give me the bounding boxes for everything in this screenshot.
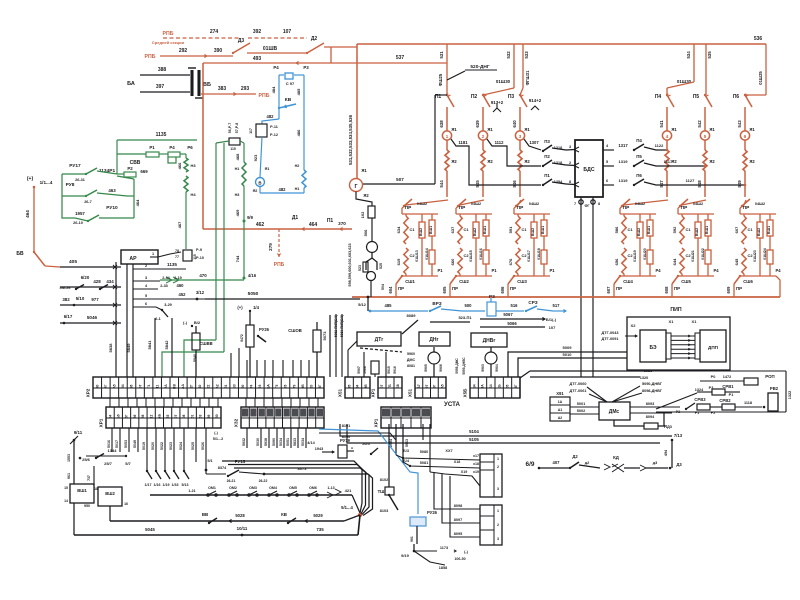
svg-text:А2: А2 xyxy=(215,384,219,388)
svg-text:П2: П2 xyxy=(471,94,478,100)
svg-text:8093: 8093 xyxy=(646,402,654,406)
svg-text:Х51: Х51 xyxy=(408,388,413,397)
block ДТг xyxy=(357,332,401,346)
svg-text:РУ8: РУ8 xyxy=(66,182,75,188)
svg-text:5: 5 xyxy=(704,134,707,140)
svg-text:Р-9: Р-9 xyxy=(196,248,202,252)
svg-text:5915: 5915 xyxy=(387,366,391,374)
wire 8100 xyxy=(319,433,396,440)
resistor Р1 СШ3 xyxy=(541,250,547,264)
winding Я2 П1 xyxy=(446,140,448,150)
svg-text:547: 547 xyxy=(659,180,664,188)
shunt ВШ2 01Ш17 xyxy=(533,214,535,222)
svg-text:П3: П3 xyxy=(508,94,515,100)
wire 493 horizontal xyxy=(203,62,331,64)
svg-text:Р-12: Р-12 xyxy=(270,133,278,137)
svg-text:5838: 5838 xyxy=(108,343,113,353)
block АР xyxy=(121,250,158,264)
terminal strip Х51b xyxy=(415,377,446,398)
svg-text:ДПП: ДПП xyxy=(708,345,718,350)
contactor ВБ xyxy=(190,70,193,96)
svg-text:15: 15 xyxy=(64,486,68,490)
svg-text:1Б: 1Б xyxy=(497,384,501,389)
svg-text:537: 537 xyxy=(396,55,405,61)
winding Я2 П4 xyxy=(666,140,668,150)
wire 1307 circle3 to П3 contact xyxy=(524,139,541,150)
svg-text:8103: 8103 xyxy=(380,509,388,513)
svg-text:5842: 5842 xyxy=(164,340,169,350)
svg-text:5002: 5002 xyxy=(577,409,585,413)
wires below ХР1 row4 with labels xyxy=(111,428,113,452)
wire 465 blue tap xyxy=(367,296,370,299)
svg-text:516: 516 xyxy=(511,303,519,308)
svg-text:9/11: 9/11 xyxy=(74,430,83,435)
wire 5104 xyxy=(340,424,672,436)
svg-text:8: 8 xyxy=(569,180,571,184)
svg-text:26-21: 26-21 xyxy=(227,479,236,483)
wire 640 vertical xyxy=(519,107,521,131)
svg-text:669: 669 xyxy=(140,169,148,174)
svg-text:607: 607 xyxy=(606,286,611,294)
svg-text:639: 639 xyxy=(475,120,480,128)
wire 545 vertical xyxy=(482,171,484,197)
wire 523-П1 xyxy=(430,321,470,323)
svg-text:51: 51 xyxy=(190,415,194,419)
wire 8089 xyxy=(402,320,418,334)
svg-text:5053: 5053 xyxy=(124,440,128,448)
contact П1 БДС xyxy=(543,179,552,185)
svg-text:ВШ1: ВШ1 xyxy=(705,226,709,234)
connector ticks БЭ-ДПП xyxy=(666,333,671,359)
svg-text:04Ш2: 04Ш2 xyxy=(693,202,703,206)
wire 392 107 dashed xyxy=(248,37,307,39)
svg-text:544: 544 xyxy=(439,180,444,188)
svg-text:Б/1(-): Б/1(-) xyxy=(546,317,557,322)
svg-text:РПБ: РПБ xyxy=(145,54,156,60)
motor armature circle 5 xyxy=(700,131,709,140)
wire 469 green xyxy=(243,186,245,221)
svg-text:04Ш2: 04Ш2 xyxy=(417,202,427,206)
svg-text:86: 86 xyxy=(133,415,137,419)
svg-text:Я2: Я2 xyxy=(524,159,530,164)
svg-text:Я1: Я1 xyxy=(709,127,715,132)
svg-text:5090: 5090 xyxy=(272,438,276,446)
svg-text:ОМ3: ОМ3 xyxy=(249,486,257,490)
svg-text:460: 460 xyxy=(177,283,185,288)
svg-text:П6: П6 xyxy=(636,173,642,178)
svg-text:3: 3 xyxy=(497,487,499,491)
svg-text:Х5Б: Х5Б xyxy=(463,388,468,398)
svg-text:КД: КД xyxy=(613,455,620,460)
svg-text:5026: 5026 xyxy=(201,442,205,450)
resistor 607 СШ6 xyxy=(742,216,746,244)
wire 5073 xyxy=(329,315,331,377)
svg-text:ВШ1: ВШ1 xyxy=(429,226,433,234)
svg-text:КВ: КВ xyxy=(285,97,292,103)
svg-text:3Г: 3Г xyxy=(318,385,322,389)
svg-text:ПР: ПР xyxy=(459,205,466,211)
svg-text:РВ2: РВ2 xyxy=(770,386,779,391)
wire Г down to stack xyxy=(356,192,372,207)
svg-text:9/9: 9/9 xyxy=(247,215,253,220)
svg-text:546: 546 xyxy=(512,180,517,188)
svg-text:07: 07 xyxy=(174,415,178,419)
svg-text:545: 545 xyxy=(475,180,480,188)
svg-text:х19: х19 xyxy=(473,470,479,474)
svg-text:ПР: ПР xyxy=(517,205,524,211)
wire 533 vertical xyxy=(522,44,524,88)
svg-text:Р6: Р6 xyxy=(187,145,193,150)
svg-text:26-31: 26-31 xyxy=(75,178,85,182)
svg-text:Р1: Р1 xyxy=(491,268,497,273)
svg-text:ОМ5: ОМ5 xyxy=(289,486,297,490)
resistor chain ПР СШ3 xyxy=(514,200,521,208)
svg-text:д3: д3 xyxy=(653,461,658,465)
svg-text:Я2: Я2 xyxy=(709,159,715,164)
svg-text:466: 466 xyxy=(177,162,182,169)
svg-text:463: 463 xyxy=(108,188,116,193)
svg-text:1318: 1318 xyxy=(554,161,562,165)
svg-text:638: 638 xyxy=(439,120,444,128)
svg-text:Я2: Я2 xyxy=(749,159,755,164)
svg-text:Я1: Я1 xyxy=(361,168,367,173)
svg-text:452: 452 xyxy=(179,292,187,297)
motor armature circle 2 xyxy=(478,131,487,140)
wire 605 drop xyxy=(450,276,456,284)
wires row4b to bottom xyxy=(410,424,430,472)
svg-text:В: В xyxy=(258,181,261,186)
wire 638 vertical xyxy=(446,107,448,131)
wire 464 vertical left xyxy=(33,187,35,252)
svg-text:Б8: Б8 xyxy=(396,384,400,388)
resistor Р1 СШ2 xyxy=(483,250,489,264)
svg-text:1: 1 xyxy=(497,509,499,513)
svg-text:1324: 1324 xyxy=(695,388,704,392)
wire 8073 xyxy=(264,473,368,475)
svg-text:С 97: С 97 xyxy=(286,81,295,86)
wires above ХР2 right part xyxy=(230,360,232,377)
svg-text:С1: С1 xyxy=(685,227,691,232)
relay РУ26 blue box xyxy=(410,517,426,526)
terminal strip ХР1a xyxy=(378,377,402,398)
resistor chain ПР СШ2 xyxy=(456,200,484,208)
svg-text:93: 93 xyxy=(258,385,262,389)
svg-text:ВШ1: ВШ1 xyxy=(647,226,651,234)
svg-text:П6: П6 xyxy=(733,94,740,100)
svg-text:С1: С1 xyxy=(409,227,415,232)
svg-text:744: 744 xyxy=(235,255,240,262)
svg-text:5080: 5080 xyxy=(420,450,428,454)
svg-text:5/10: 5/10 xyxy=(76,296,85,301)
terminal strip ХЗ2 xyxy=(241,407,324,428)
svg-text:СШ5: СШ5 xyxy=(681,279,691,284)
svg-text:П4: П4 xyxy=(655,94,662,100)
svg-text:Р4: Р4 xyxy=(713,268,719,273)
svg-text:В/2: В/2 xyxy=(194,320,201,325)
svg-text:5049: 5049 xyxy=(133,440,137,448)
svg-text:ВШ2: ВШ2 xyxy=(757,228,761,236)
svg-text:428: 428 xyxy=(93,279,101,284)
svg-text:536: 536 xyxy=(754,36,763,42)
wires ХР2 to ХР1 verticals xyxy=(109,398,111,407)
svg-text:(-): (-) xyxy=(183,320,188,325)
svg-text:БЭ: БЭ xyxy=(649,345,656,351)
svg-text:ПР: ПР xyxy=(405,205,412,211)
svg-text:1/1...4: 1/1...4 xyxy=(40,180,53,185)
svg-text:СШВВ: СШВВ xyxy=(199,341,212,346)
nested bend bundle xyxy=(222,461,362,513)
winding Я2 П6 xyxy=(744,140,746,150)
svg-text:12: 12 xyxy=(149,415,153,419)
svg-text:543: 543 xyxy=(737,120,742,128)
svg-text:1/4: 1/4 xyxy=(253,305,259,310)
terminal strip Х5Б xyxy=(470,377,520,398)
resistor 637 СШ2 xyxy=(458,216,462,244)
shunt ВШ2 01Ш13 xyxy=(421,214,423,222)
wire 531 vertical to П1 xyxy=(446,44,448,95)
svg-text:ПР: ПР xyxy=(398,286,404,291)
svg-text:Н3: Н3 xyxy=(190,163,196,168)
svg-text:01Ш23: 01Ш23 xyxy=(753,250,757,262)
svg-text:1553: 1553 xyxy=(67,454,71,462)
svg-text:5904: 5904 xyxy=(495,364,499,372)
svg-text:608: 608 xyxy=(664,286,669,294)
wires 1323 1320 xyxy=(530,370,645,372)
svg-text:1319: 1319 xyxy=(619,159,629,164)
diagonal taps ДМс xyxy=(587,387,607,402)
wire 604 drop xyxy=(396,276,402,284)
svg-text:500: 500 xyxy=(465,303,473,308)
node Д2 drop xyxy=(330,47,332,63)
svg-text:469: 469 xyxy=(235,209,240,216)
svg-text:5/7: 5/7 xyxy=(125,461,131,466)
svg-text:20/4: 20/4 xyxy=(362,442,370,446)
svg-text:8095: 8095 xyxy=(454,532,462,536)
svg-text:БА: БА xyxy=(127,81,135,87)
svg-text:1957: 1957 xyxy=(75,211,85,216)
svg-text:3/12: 3/12 xyxy=(196,290,205,295)
svg-text:549: 549 xyxy=(737,180,742,188)
svg-text:9В: 9В xyxy=(364,384,368,389)
svg-text:ДНВг: ДНВг xyxy=(483,338,496,344)
svg-text:2: 2 xyxy=(497,465,499,469)
ОМ switch row xyxy=(150,494,352,496)
svg-text:Я2: Я2 xyxy=(253,189,258,193)
svg-text:5841: 5841 xyxy=(147,340,152,350)
wire 382 5/10 977 xyxy=(60,304,121,306)
svg-text:5051: 5051 xyxy=(286,438,290,446)
switch columns 1/17 1/16 1/19 1/33 5/13 xyxy=(146,428,148,471)
svg-text:01Ш25: 01Ш25 xyxy=(758,71,763,85)
svg-text:6472: 6472 xyxy=(240,334,244,342)
wire 485 blue xyxy=(370,310,428,312)
svg-text:5050: 5050 xyxy=(248,291,259,297)
svg-text:2: 2 xyxy=(569,161,571,165)
connector box2 xyxy=(480,505,502,545)
svg-text:604: 604 xyxy=(388,286,393,294)
svg-text:А5: А5 xyxy=(440,384,444,388)
svg-text:5999-ДНВС: 5999-ДНВС xyxy=(462,357,466,375)
component П-7 П-8 black xyxy=(229,138,240,145)
svg-text:БДС: БДС xyxy=(583,167,594,173)
svg-text:01Ш13: 01Ш13 xyxy=(415,250,419,262)
wire 546 vertical xyxy=(519,171,521,197)
svg-text:Р-11: Р-11 xyxy=(270,125,278,129)
АР pin 5 wire 452 xyxy=(133,298,205,300)
motor armature circle 4 xyxy=(662,131,671,140)
svg-text:ФГ: ФГ xyxy=(584,204,589,208)
resistor Rдз xyxy=(614,420,644,426)
wire 6/17 5046 xyxy=(60,322,121,324)
svg-text:ДТГ-0061: ДТГ-0061 xyxy=(570,389,587,393)
svg-text:04Ш2: 04Ш2 xyxy=(471,202,481,206)
svg-text:14: 14 xyxy=(64,499,68,503)
svg-text:382: 382 xyxy=(62,297,70,302)
switch Д3 xyxy=(233,43,250,53)
svg-text:ВШ1: ВШ1 xyxy=(483,226,487,234)
svg-text:25/7: 25/7 xyxy=(104,461,113,466)
wire 535 vertical xyxy=(705,44,707,82)
svg-text:25/6: 25/6 xyxy=(82,457,91,462)
svg-text:С1: С1 xyxy=(521,227,527,232)
svg-text:5090-ДНВГ: 5090-ДНВГ xyxy=(642,382,663,386)
svg-text:16: 16 xyxy=(124,502,128,506)
svg-text:5029: 5029 xyxy=(313,513,323,518)
relay Р-9 Р-10 comp xyxy=(183,250,192,261)
svg-text:523: 523 xyxy=(358,265,362,271)
svg-text:Х18: Х18 xyxy=(454,460,460,464)
svg-text:6: 6 xyxy=(744,134,747,140)
svg-text:609: 609 xyxy=(726,286,731,294)
svg-text:РУ17: РУ17 xyxy=(69,163,81,169)
right frame lines xyxy=(530,370,786,372)
svg-text:Х1: Х1 xyxy=(692,319,698,324)
svg-text:8098: 8098 xyxy=(454,504,462,508)
svg-text:115: 115 xyxy=(230,147,236,151)
svg-text:5024: 5024 xyxy=(179,442,183,450)
svg-text:С1: С1 xyxy=(747,227,753,232)
svg-text:39: 39 xyxy=(207,415,211,419)
svg-text:5001: 5001 xyxy=(577,402,585,406)
svg-text:5025: 5025 xyxy=(191,442,195,450)
svg-text:977: 977 xyxy=(91,297,99,302)
svg-text:383: 383 xyxy=(218,86,227,92)
svg-text:Н2: Н2 xyxy=(295,164,300,168)
svg-text:Б6: Б6 xyxy=(117,414,121,418)
wire 737 xyxy=(93,466,95,486)
svg-text:1122: 1122 xyxy=(655,143,664,148)
svg-text:26: 26 xyxy=(284,385,288,389)
svg-text:923: 923 xyxy=(253,154,258,161)
coil Н2 blue xyxy=(302,170,306,188)
svg-text:РПБ: РПБ xyxy=(163,31,174,37)
svg-text:Я1: Я1 xyxy=(451,127,457,132)
svg-text:5067: 5067 xyxy=(503,312,513,317)
shunt ВШ1 01Ш16 xyxy=(485,214,487,220)
wire 1344 25/6 25/7 5/7 xyxy=(79,457,82,460)
wire 467 green vertical xyxy=(185,192,187,249)
wires below ХЗ2 with labels xyxy=(246,428,248,448)
svg-text:В4: В4 xyxy=(472,384,476,388)
svg-text:РПБ: РПБ xyxy=(259,93,270,99)
svg-text:ДМС: ДМС xyxy=(407,358,416,362)
svg-text:Р0: Р0 xyxy=(711,375,716,379)
svg-text:04Ш2: 04Ш2 xyxy=(529,202,539,206)
svg-text:2-19: 2-19 xyxy=(174,276,182,280)
svg-text:5963: 5963 xyxy=(405,439,409,447)
block БДС xyxy=(575,140,603,197)
svg-text:1/33: 1/33 xyxy=(172,483,179,487)
wire 5050 xyxy=(205,298,360,300)
svg-text:1858: 1858 xyxy=(439,566,447,570)
svg-text:АБ: АБ xyxy=(158,413,162,418)
connector box1 xyxy=(480,454,502,497)
svg-text:86: 86 xyxy=(130,385,134,389)
svg-text:ПР: ПР xyxy=(681,205,688,211)
svg-text:4/14: 4/14 xyxy=(307,441,315,445)
wire РПБ средней секции dashed 274 xyxy=(163,37,240,39)
contact П2 БДС xyxy=(543,160,552,166)
svg-text:С1: С1 xyxy=(627,227,633,232)
svg-text:5960: 5960 xyxy=(407,352,415,356)
svg-text:60: 60 xyxy=(241,385,245,389)
svg-text:5034: 5034 xyxy=(301,438,305,446)
svg-text:Р4: Р4 xyxy=(775,268,781,273)
svg-text:07: 07 xyxy=(380,385,384,389)
svg-text:ВВ: ВВ xyxy=(202,512,208,517)
svg-text:СРВ1: СРВ1 xyxy=(722,384,734,389)
svg-text:Я1: Я1 xyxy=(265,167,270,171)
svg-text:ХР1: ХР1 xyxy=(99,418,104,427)
svg-text:Я1: Я1 xyxy=(671,127,677,132)
svg-text:1173: 1173 xyxy=(440,546,448,550)
resistor Р1 СШ1 xyxy=(429,250,435,264)
svg-text:388: 388 xyxy=(158,67,167,73)
svg-text:1318: 1318 xyxy=(554,146,562,150)
shunt ВШ1 01Ш22 xyxy=(707,214,709,220)
svg-text:х18: х18 xyxy=(473,462,479,466)
wire 609 drop xyxy=(734,276,740,284)
svg-text:СРВ3: СРВ3 xyxy=(694,397,706,402)
resistor chain ПР СШ5 xyxy=(678,200,706,208)
svg-text:ВШ1: ВШ1 xyxy=(767,226,771,234)
wire 537 xyxy=(331,62,447,64)
svg-text:8Г: 8Г xyxy=(514,385,518,389)
svg-text:8101: 8101 xyxy=(342,424,350,428)
terminal strip ХР1b row4 xyxy=(381,407,431,428)
svg-text:5/13: 5/13 xyxy=(182,483,189,487)
svg-text:4/16: 4/16 xyxy=(248,273,257,278)
svg-text:04Ш2: 04Ш2 xyxy=(635,202,645,206)
svg-text:С1: С1 xyxy=(463,227,469,232)
svg-text:01ШВ: 01ШВ xyxy=(263,46,278,52)
svg-text:ДТГ-0091: ДТГ-0091 xyxy=(602,337,619,341)
svg-text:77: 77 xyxy=(175,255,179,259)
svg-text:Я2: Я2 xyxy=(487,159,493,164)
svg-text:531: 531 xyxy=(439,51,444,59)
block ВШ2 xyxy=(98,487,122,506)
motor circle ДНг xyxy=(428,352,440,364)
svg-text:СШ6: СШ6 xyxy=(743,279,753,284)
svg-text:5104: 5104 xyxy=(469,429,479,434)
wire 541 vertical xyxy=(666,107,668,131)
winding Я2 П5 xyxy=(704,140,706,150)
block ПИП xyxy=(627,317,730,370)
svg-text:494: 494 xyxy=(664,449,668,456)
wire 547 vertical xyxy=(666,171,668,197)
relay Р2 669 xyxy=(124,172,136,177)
svg-text:Д3: Д3 xyxy=(238,38,245,44)
